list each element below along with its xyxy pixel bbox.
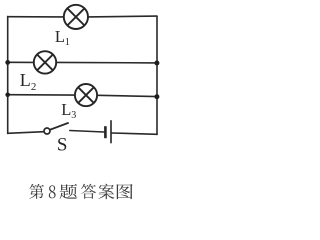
svg-text:3: 3 bbox=[71, 110, 76, 121]
junction node row3 left bbox=[5, 93, 10, 98]
wire: row3 left segment to L3 bbox=[8, 94, 75, 96]
caption char 题 bbox=[60, 184, 78, 199]
label L3 bbox=[61, 100, 76, 121]
switch S pivot bbox=[44, 128, 50, 134]
wire: left vertical bus bbox=[7, 16, 9, 133]
caption char 答 bbox=[81, 184, 96, 199]
junction node row2 left bbox=[5, 60, 10, 65]
switch S lever bbox=[50, 123, 68, 130]
label L1 bbox=[55, 27, 70, 48]
lamp L2 bbox=[34, 51, 56, 73]
wire: top left segment to L1 bbox=[8, 16, 63, 18]
caption char 第 bbox=[29, 184, 44, 199]
wire: switch to battery segment bbox=[70, 131, 104, 133]
junction node row3 right bbox=[154, 94, 159, 99]
wire: right vertical bus bbox=[156, 16, 158, 134]
label L2 bbox=[20, 70, 37, 93]
wire: battery to bottom right corner bbox=[112, 133, 157, 134]
battery positive plate (long thin) bbox=[110, 120, 112, 143]
svg-text:L: L bbox=[55, 27, 65, 46]
wire: row2 right segment from L2 bbox=[57, 61, 157, 64]
svg-text:2: 2 bbox=[31, 81, 37, 93]
svg-text:S: S bbox=[57, 134, 68, 155]
svg-text:L: L bbox=[61, 100, 71, 119]
lamp L3 bbox=[75, 84, 97, 106]
wire: bottom left segment to switch bbox=[8, 132, 44, 134]
wire: top right segment from L1 bbox=[89, 15, 157, 18]
battery negative plate (short thick) bbox=[104, 126, 107, 138]
svg-text:1: 1 bbox=[65, 37, 70, 48]
wire: row3 right segment from L3 bbox=[98, 95, 157, 96]
caption char 图 bbox=[117, 184, 133, 199]
wire: row2 left segment to L2 bbox=[8, 61, 34, 63]
lamp L1 bbox=[64, 5, 88, 29]
caption: 第 8 题答案图 bbox=[29, 184, 132, 200]
svg-text:L: L bbox=[20, 70, 31, 90]
caption char 8 bbox=[49, 185, 56, 198]
junction node row2 right bbox=[154, 61, 159, 66]
caption char 案 bbox=[98, 184, 114, 199]
